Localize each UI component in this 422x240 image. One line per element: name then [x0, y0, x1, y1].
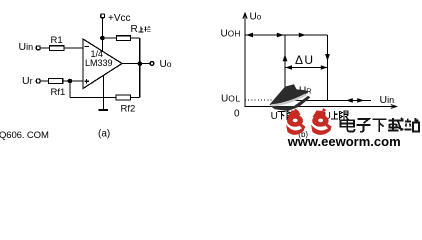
- label delta-U: [295, 53, 314, 67]
- svg-text:LM339: LM339: [85, 58, 113, 68]
- watermark bug glyph 1 (虫): [286, 108, 306, 135]
- wire Rf1 to op-amp non-inverting input: [63, 80, 83, 82]
- segment UOL dotted guide: [245, 99, 284, 101]
- svg-text:(a): (a): [98, 129, 110, 140]
- op-amp U1 1/4 LM339: [83, 39, 122, 89]
- x-axis Uin: [245, 105, 396, 109]
- svg-text:Uo: Uo: [160, 59, 172, 70]
- label U上限 upper-limit: [324, 111, 349, 122]
- svg-text:Ur: Ur: [22, 75, 33, 87]
- wire pull-up to output node: [131, 38, 140, 64]
- resistor R1: [50, 35, 64, 51]
- arrowhead left on UOH line: [246, 33, 253, 38]
- y-axis Uo: [243, 13, 247, 107]
- wire op-amp output: [122, 63, 150, 65]
- ground: [99, 109, 109, 111]
- svg-text:U: U: [271, 111, 278, 122]
- watermark Q606.COM: [0, 130, 49, 141]
- svg-text:0: 0: [234, 108, 240, 119]
- segment UOH level line: [245, 34, 328, 36]
- svg-text:Q606. COM: Q606. COM: [0, 130, 49, 141]
- power +Vcc terminal: [101, 13, 131, 24]
- wire feedback node down: [69, 81, 71, 98]
- dimension line delta-U: [285, 65, 328, 70]
- svg-text:Uo: Uo: [250, 11, 262, 22]
- label 0 origin: [234, 108, 240, 119]
- arrowhead down on upper threshold: [325, 54, 330, 61]
- arrowhead up on lower threshold: [283, 54, 288, 61]
- svg-text:www.eeworm.com: www.eeworm.com: [287, 134, 401, 148]
- wire feedback bottom run: [70, 97, 116, 99]
- label UOH: [221, 29, 241, 40]
- wire Rf2 to output node: [130, 64, 139, 98]
- svg-text:R: R: [131, 24, 138, 35]
- node Uin terminal label: [19, 41, 34, 53]
- svg-text:Uin: Uin: [380, 94, 395, 106]
- arrowhead left on UOL line: [346, 98, 353, 103]
- label (b): [298, 130, 308, 139]
- node Ur terminal circle: [36, 79, 40, 83]
- watermark text www.eeworm.com: [287, 134, 401, 149]
- arrowhead right mid2 on UOH line: [299, 33, 306, 38]
- wire Vcc rail down to op-amp: [101, 18, 103, 51]
- segment upper threshold vertical: [327, 35, 329, 101]
- logo blob cap: [270, 84, 311, 111]
- arrowhead right on UOL line: [357, 98, 364, 103]
- arrowhead right mid1 on UOH line: [277, 33, 284, 38]
- junction dot Vcc rail: [100, 36, 105, 41]
- svg-text:Rf2: Rf2: [121, 104, 136, 115]
- svg-text:+Vcc: +Vcc: [108, 13, 131, 24]
- label Uo axis: [250, 11, 262, 22]
- node Uo terminal label: [160, 59, 172, 70]
- label Uin axis: [380, 94, 395, 106]
- resistor Rf2: [116, 95, 135, 114]
- node Uin terminal circle: [36, 46, 40, 50]
- svg-text:Uin: Uin: [19, 41, 34, 53]
- svg-text:ΔU: ΔU: [295, 53, 314, 67]
- wire ground pin of op-amp: [102, 76, 104, 110]
- svg-text:Rf1: Rf1: [51, 87, 66, 98]
- svg-text:R1: R1: [51, 35, 63, 46]
- watermark bug glyph 2 (虫): [311, 108, 332, 135]
- junction dot output node: [138, 61, 143, 66]
- label (a): [98, 129, 110, 140]
- node Uo terminal circle: [150, 62, 153, 65]
- resistor Rf1: [49, 79, 66, 98]
- label U下限 lower-limit: [271, 111, 296, 122]
- wire R1 to op-amp inverting input: [64, 47, 83, 49]
- resistor R pull-up (R上拉): [116, 24, 150, 40]
- label UOL: [221, 94, 241, 105]
- svg-text:UOL: UOL: [221, 94, 241, 105]
- junction dot feedback node: [68, 79, 73, 84]
- node Ur terminal label: [22, 75, 33, 87]
- wire Uin to R1: [40, 47, 50, 49]
- wire Ur to Rf1: [40, 80, 50, 82]
- svg-text:UOH: UOH: [221, 29, 241, 40]
- label UR: [299, 86, 312, 97]
- wire Vcc junction to pull-up resistor: [102, 37, 116, 39]
- segment lower threshold vertical: [284, 35, 286, 101]
- segment UOL level line: [284, 99, 371, 101]
- watermark text 电子下载站: [341, 118, 419, 133]
